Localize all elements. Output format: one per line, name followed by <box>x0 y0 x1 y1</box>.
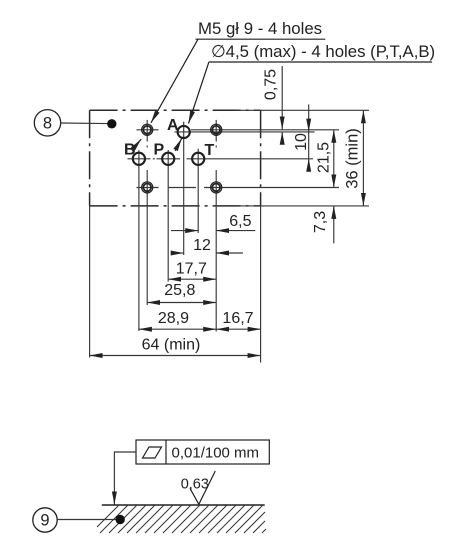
svg-text:T: T <box>205 142 215 159</box>
svg-text:7,3: 7,3 <box>312 211 329 233</box>
svg-text:B: B <box>124 142 136 159</box>
centerline: bottom M5 hole row <box>137 187 340 189</box>
svg-text:25,8: 25,8 <box>164 282 195 299</box>
port hole B <box>133 153 145 165</box>
svg-text:8: 8 <box>43 115 52 133</box>
centerline: M5 right column <box>215 120 217 332</box>
svg-text:21,5: 21,5 <box>316 142 333 173</box>
flatness feature control frame <box>136 440 269 464</box>
svg-text:16,7: 16,7 <box>222 310 253 327</box>
M5 mounting hole bottom-left <box>142 182 153 193</box>
centerline: A column <box>183 122 185 255</box>
dimension 6,5 <box>171 230 255 232</box>
dimension 12 <box>171 252 243 254</box>
dimension 28,9 <box>139 328 216 330</box>
svg-text:17,7: 17,7 <box>176 260 207 277</box>
svg-text:10: 10 <box>293 133 310 151</box>
arrow P to A hole <box>175 139 182 151</box>
svg-text:0,01/100 mm: 0,01/100 mm <box>172 445 260 462</box>
leader dot on surface <box>116 515 125 524</box>
svg-text:36 (min): 36 (min) <box>344 128 362 189</box>
hatch of machined surface <box>97 505 266 533</box>
port hole T <box>192 153 204 165</box>
svg-text:∅4,5 (max) - 4 holes (P,T,A,B): ∅4,5 (max) - 4 holes (P,T,A,B) <box>211 42 435 61</box>
leader from balloon 9 <box>57 519 116 521</box>
svg-text:12: 12 <box>193 237 211 254</box>
leader from balloon 8 <box>61 122 108 125</box>
dimension 25,8 <box>147 302 216 304</box>
leader dia 4,5 to port hole A <box>189 62 209 124</box>
port hole A <box>178 126 190 138</box>
dimension 0,75 <box>281 66 283 143</box>
centerline: P column <box>167 150 169 282</box>
flatness leader <box>114 452 136 503</box>
dimension 7,3 <box>333 206 335 243</box>
extension line: plate top edge to right <box>235 109 369 111</box>
svg-text:M5 gł 9 - 4 holes: M5 gł 9 - 4 holes <box>198 19 322 38</box>
M5 mounting hole bottom-right <box>211 182 222 193</box>
dimension 17,7 <box>168 278 216 280</box>
dimension 36 (min) <box>362 110 364 206</box>
port hole P <box>162 153 174 165</box>
svg-text:6,5: 6,5 <box>229 213 251 230</box>
centerline: top M5 hole row <box>137 129 340 131</box>
balloon 8 <box>34 110 60 136</box>
dimension 10 <box>308 104 310 171</box>
M5 mounting hole top-left <box>142 124 153 135</box>
centerline: B column <box>138 150 140 331</box>
machined surface top edge <box>102 504 265 506</box>
leader M5 to top-left mounting hole <box>151 39 198 123</box>
svg-text:A: A <box>167 117 179 134</box>
extension line: plate bottom edge to right <box>235 205 369 207</box>
svg-text:P: P <box>154 142 165 159</box>
leader dot on plate <box>107 119 116 128</box>
svg-text:28,9: 28,9 <box>158 310 189 327</box>
callout underline dia 4,5 <box>209 61 432 63</box>
svg-text:0,63: 0,63 <box>181 476 209 492</box>
svg-text:64 (min): 64 (min) <box>142 336 201 353</box>
centerline: A port row <box>175 131 315 133</box>
centerline: T column <box>197 149 199 233</box>
dimension 21,5 <box>333 130 335 188</box>
roughness symbol <box>190 471 215 504</box>
svg-text:9: 9 <box>40 512 49 530</box>
M5 mounting hole top-right <box>211 124 222 135</box>
arrow B to M5 hole <box>132 139 141 150</box>
extension line: plate left edge down <box>89 206 91 358</box>
flatness symbol parallelogram <box>143 447 162 458</box>
plate outline (chain line rectangle) <box>90 110 261 206</box>
callout underline M5 <box>196 38 326 40</box>
svg-text:0,75: 0,75 <box>263 69 280 100</box>
dimension 64 (min) <box>90 355 261 357</box>
centerline: M5 left column <box>146 120 148 305</box>
centerline: P/B/T port row <box>128 158 314 160</box>
dimension 16,7 <box>216 328 260 330</box>
extension line: plate right edge down <box>260 206 262 363</box>
balloon 9 <box>33 508 57 532</box>
